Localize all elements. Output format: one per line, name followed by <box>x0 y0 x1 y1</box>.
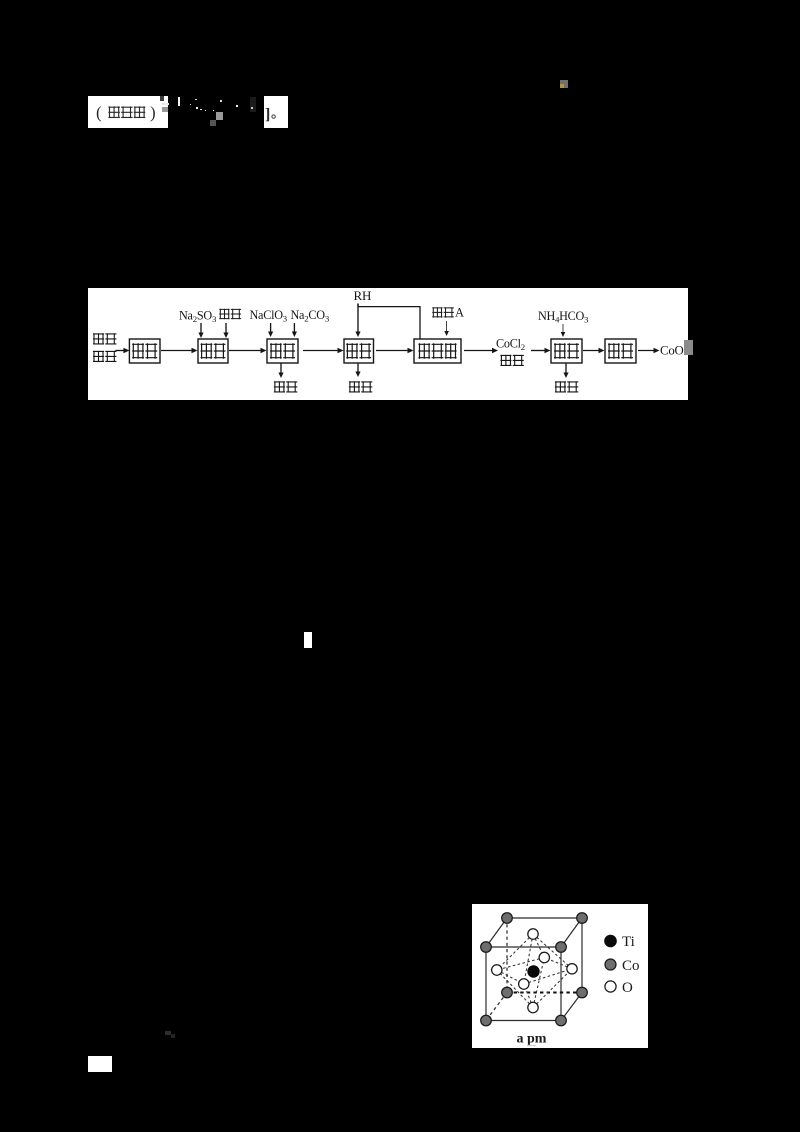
octahedron dashed edges <box>497 934 533 970</box>
label shijiA (reagent A) <box>432 307 442 317</box>
ethephon label white box <box>88 96 168 128</box>
O face-center atoms <box>539 952 549 962</box>
svg-text:NH4HCO3: NH4HCO3 <box>538 309 589 325</box>
chars yi-xi-li <box>108 106 120 118</box>
arrows into jinqu <box>200 323 202 334</box>
thin arrow into chengu <box>562 324 564 334</box>
down arrow + shuixiang (aqueous) <box>357 363 359 373</box>
svg-text:): ) <box>150 103 156 122</box>
label hangu-feiliao (feed) <box>93 333 104 344</box>
flowchart white panel <box>88 288 688 400</box>
closing bracket white box <box>264 96 288 128</box>
Co corner atoms <box>502 912 513 923</box>
white speckles <box>190 104 192 106</box>
svg-text:a pm: a pm <box>517 1031 547 1046</box>
svg-text:CoCl2: CoCl2 <box>496 337 525 353</box>
svg-text:]: ] <box>265 106 270 123</box>
Ti body-center atom <box>527 965 539 977</box>
process box cuiqu <box>344 339 374 363</box>
svg-text:A: A <box>455 306 464 320</box>
faint underline <box>527 1044 536 1045</box>
svg-text:Co: Co <box>622 957 640 973</box>
RH feed line into cuiqu and branch to fancuiqu <box>358 304 420 340</box>
svg-text:NaClO3: NaClO3 <box>250 308 288 324</box>
main flow arrows <box>115 350 125 352</box>
cube hidden dashed edges <box>506 918 508 993</box>
arrows into chendian <box>270 323 272 333</box>
cube solid edges <box>486 946 561 948</box>
legend O <box>605 980 616 991</box>
formula strip fragments <box>160 96 164 101</box>
svg-text:RH: RH <box>354 288 372 303</box>
process box chendian <box>267 339 298 363</box>
svg-text:O: O <box>622 979 633 995</box>
process box baoshao <box>129 339 160 363</box>
small gray square with yellow mark <box>560 80 568 88</box>
process box duanshao <box>605 339 636 363</box>
faint smudge <box>165 1031 171 1035</box>
svg-text:CoO: CoO <box>660 344 684 358</box>
crystal structure white panel <box>472 904 648 1048</box>
bottom-left white chip <box>88 1056 112 1072</box>
process box jinqu <box>198 339 228 363</box>
legend Co <box>605 959 616 970</box>
small white tick mid page <box>304 632 312 648</box>
down arrow + lvzha (residue) <box>280 363 282 374</box>
svg-text:Na2SO3: Na2SO3 <box>179 309 217 325</box>
bracket highlight bar <box>178 97 180 106</box>
svg-text:Ti: Ti <box>622 934 635 950</box>
process box fancuiqu <box>414 339 461 363</box>
gray mosaic blocks <box>216 112 223 120</box>
process box chengu <box>551 339 582 363</box>
svg-text:Na2CO3: Na2CO3 <box>291 308 330 324</box>
gray cut-off character at panel right edge <box>684 340 693 355</box>
down arrow + lvye (filtrate) <box>565 363 567 374</box>
thin arrow into fancuiqu <box>446 321 448 333</box>
legend Ti <box>604 934 617 947</box>
svg-text:(: ( <box>96 103 102 122</box>
